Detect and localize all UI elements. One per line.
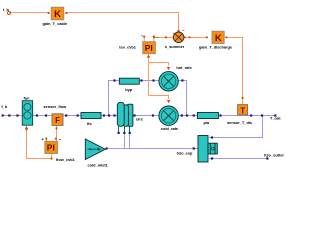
svg-text:gain_T_cable: gain_T_cable [43, 21, 68, 26]
svg-text:F: F [55, 116, 60, 125]
svg-text:K: K [54, 9, 61, 20]
svg-text:sensor_T_dis: sensor_T_dis [227, 120, 252, 125]
svg-text:f_b: f_b [1, 104, 7, 109]
svg-text:cold_rate: cold_rate [161, 126, 179, 131]
svg-text:fan: fan [24, 96, 30, 101]
svg-text:tev_cvb1: tev_cvb1 [119, 44, 136, 49]
svg-text:PI: PI [145, 43, 153, 53]
svg-text:sensor_flow: sensor_flow [43, 104, 67, 109]
svg-text:byp: byp [125, 87, 133, 92]
svg-text:h2o_exp: h2o_exp [177, 151, 193, 156]
svg-text:PI: PI [47, 143, 55, 153]
svg-text:K: K [215, 33, 222, 44]
svg-text:T_out: T_out [270, 115, 281, 120]
svg-text:T: T [240, 106, 245, 115]
svg-text:pla: pla [204, 120, 210, 125]
svg-text:circ: circ [136, 117, 144, 122]
svg-text:cold_inlet1: cold_inlet1 [88, 163, 109, 168]
svg-text:gain_T_discharge: gain_T_discharge [199, 44, 233, 49]
svg-text:t_b: t_b [3, 7, 9, 12]
svg-text:ftc: ftc [87, 121, 93, 126]
svg-text:h2o_outlet: h2o_outlet [264, 152, 284, 157]
svg-text:flow_cvb1: flow_cvb1 [56, 157, 76, 162]
svg-text:s_summer: s_summer [165, 44, 185, 49]
svg-text:hot_rate: hot_rate [176, 65, 192, 70]
